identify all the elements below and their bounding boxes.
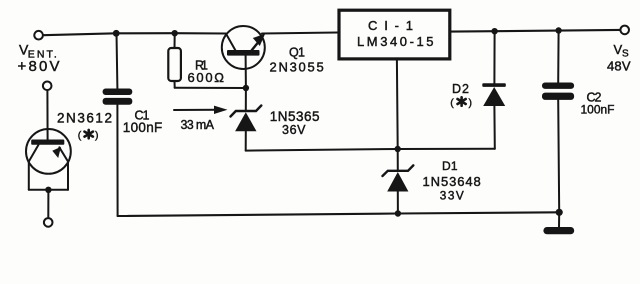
label C2 100nF [581,91,616,117]
wire bottom rail [118,212,560,216]
capacitor C1 [103,33,133,216]
asterisk star 2N3612 [85,130,93,138]
node D1 bottom [395,210,401,216]
label 2N3612 (*) [57,110,113,141]
node D2 top [491,28,497,34]
transistor Q2 2N3612 [26,129,71,190]
label VENT +80V [18,42,61,75]
svg-text:): ) [469,97,473,109]
svg-text:1N5365: 1N5365 [270,109,321,124]
wire top rail left [43,33,226,35]
wire R1 bottom to base node [175,87,246,89]
wire IC ground pin [396,61,399,150]
svg-text:(: ( [450,97,454,109]
node C2 top [555,27,561,33]
input terminal VENT [34,31,43,40]
svg-text:36V: 36V [282,123,306,137]
ground [543,212,574,234]
output terminal VS [620,26,629,35]
label R1 600ohm [188,58,225,85]
svg-text:+80V: +80V [18,58,61,75]
svg-text:2N3055: 2N3055 [270,59,325,74]
svg-text:): ) [95,130,99,142]
label D2 (*) [450,82,472,109]
svg-text:600Ω: 600Ω [188,70,225,85]
node D1 top [395,146,401,152]
transistor Q1 [222,26,265,88]
svg-text:33 mA: 33 mA [181,118,215,132]
wire top rail Q1 to IC [262,33,337,34]
node R1 top [172,30,178,36]
capacitor C2 [542,31,574,213]
svg-text:LM340-15: LM340-15 [357,34,435,49]
svg-text:(: ( [78,130,82,142]
terminal Q2 base [43,82,52,91]
node Q2 tie junction [45,187,51,193]
IC U1 CI-1 LM340-15 [339,10,450,59]
zener diode 1N5365 [231,88,262,151]
terminal Q2 lower [44,218,53,227]
label 1N5365 36V [270,109,321,137]
svg-text:48V: 48V [607,59,631,74]
svg-text:100nF: 100nF [123,120,164,135]
svg-text:100nF: 100nF [581,103,616,117]
svg-text:33V: 33V [440,188,465,202]
node Q1 base / zener top [243,85,249,91]
resistor R1 [168,33,181,87]
svg-text:D2: D2 [452,82,469,96]
label VS 48V [607,42,631,74]
wire zener bottom run to D2 bottom [246,149,495,151]
wire Q2 collector-emitter tie [29,189,68,191]
node C1 top [113,30,120,37]
label C1 100nF [123,109,164,136]
svg-text:Q1: Q1 [289,46,305,60]
wire IC right rail to output [451,30,620,32]
svg-text:D1: D1 [442,159,458,173]
diode D2 [482,31,506,149]
asterisk star D2 [458,97,466,105]
node ground junction [556,209,563,216]
current arrow 33mA [174,106,228,114]
wire Q2 lower lead [47,190,49,218]
svg-text:2N3612: 2N3612 [57,110,113,125]
svg-text:1N53648: 1N53648 [423,174,482,189]
wire Q2 base lead [46,90,48,140]
label Q1 2N3055 [270,46,325,75]
label D1 1N53648 33V [423,159,482,202]
zener diode D1 [383,149,414,214]
